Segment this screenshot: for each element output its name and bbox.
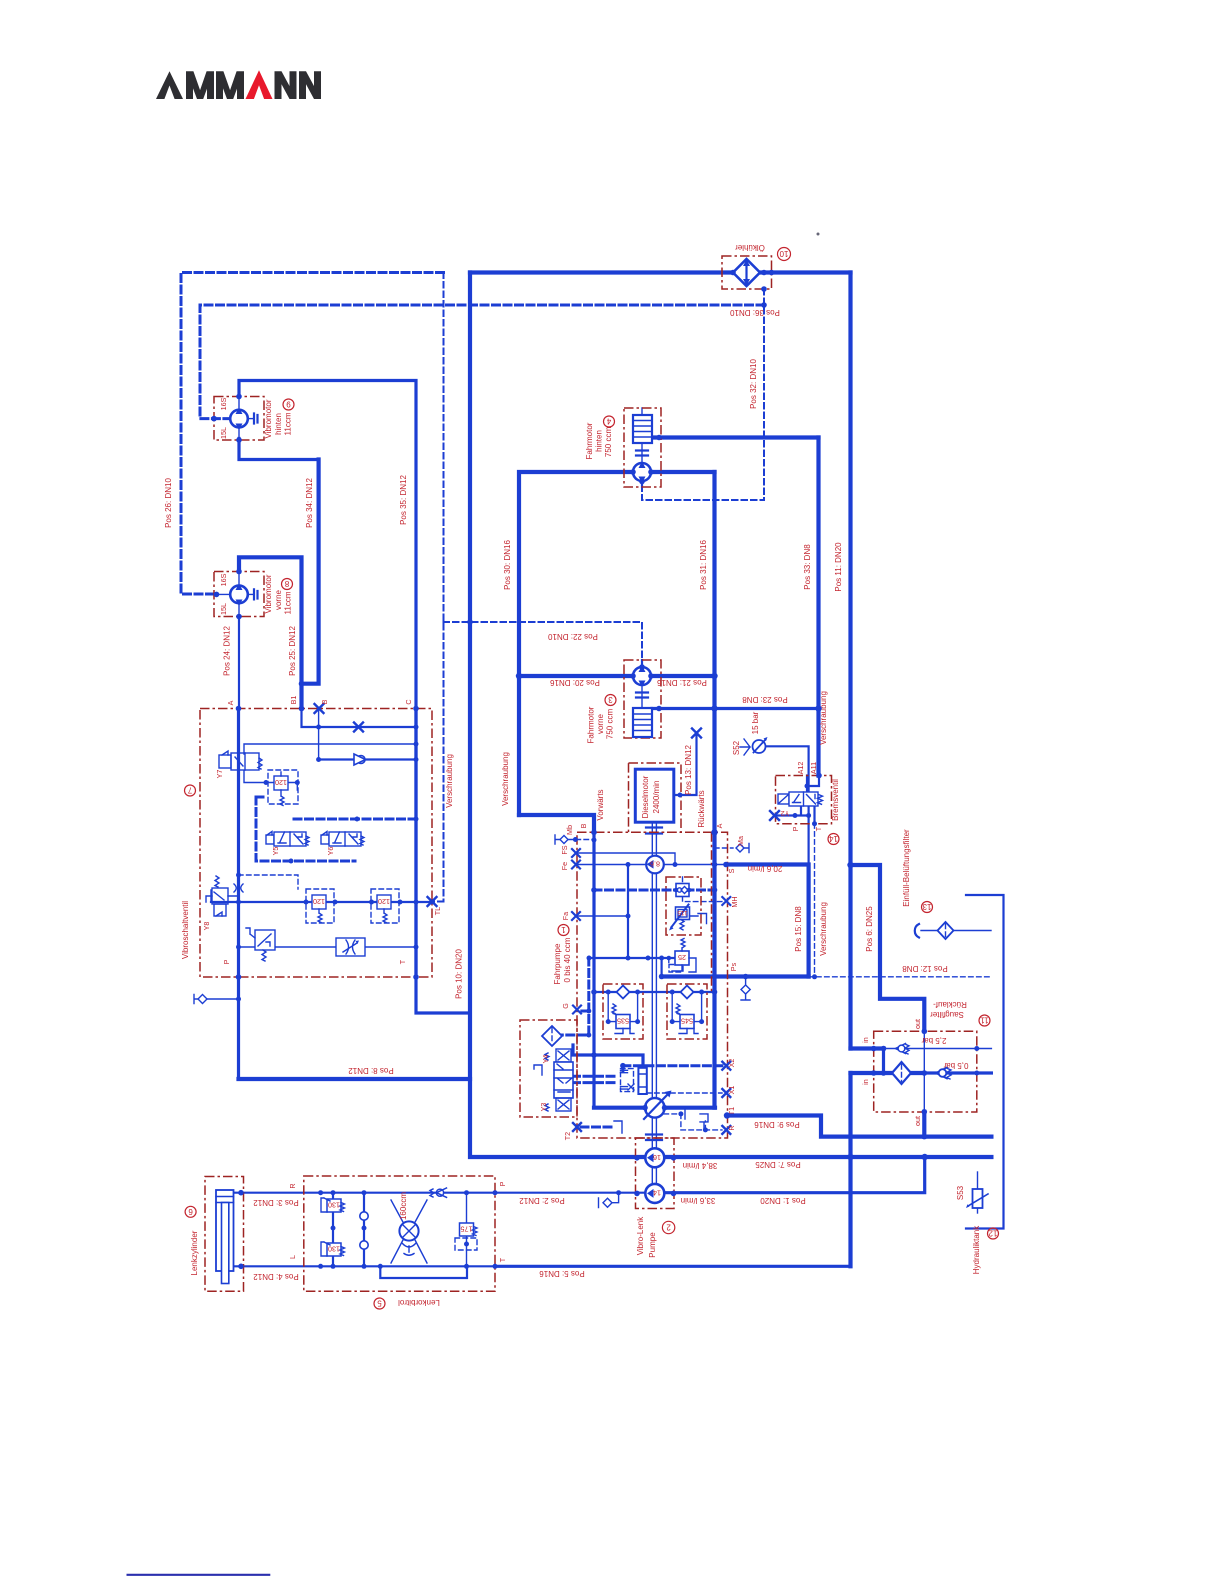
svg-text:33,6 l/min: 33,6 l/min (681, 1196, 716, 1205)
Lenkzylinder cylinder (216, 1190, 234, 1284)
svg-text:T: T (498, 1257, 507, 1262)
AMMANN logo (156, 70, 321, 99)
wire vibromotor9 side shaft (248, 418, 255, 420)
junction dots group Vibroschaltventil (236, 706, 434, 1002)
wire orbitrol internal column 130 (332, 1193, 334, 1267)
wire Pos20 DN16 (519, 674, 633, 678)
svg-text:Ps: Ps (729, 962, 738, 971)
T2 port X (573, 1123, 581, 1131)
Y5 solenoid valve (266, 832, 309, 847)
wire dashed X2 pilot (623, 1066, 722, 1071)
svg-text:B1: B1 (289, 696, 298, 705)
wire Vibroschalt check line y=759.5 (319, 758, 416, 760)
25 relief valve (672, 939, 696, 973)
wire Dieselmotor to Pos13 (674, 733, 696, 795)
wire Vorwaerts feed (519, 815, 594, 832)
svg-text:Verschraubung: Verschraubung (445, 754, 454, 808)
svg-text:Pumpe: Pumpe (648, 1232, 657, 1258)
wire coupling bars (646, 828, 662, 1141)
wire filter bypass line 2,5bar (884, 1048, 992, 1050)
logo letter N2 (299, 71, 321, 99)
wire Vibroschalt B column (318, 709, 320, 760)
box Fahrpumpe 1 (577, 832, 728, 1138)
check assembly left diamond (617, 986, 630, 999)
svg-text:4: 4 (606, 417, 611, 426)
box check valve left (603, 984, 643, 1039)
TL X port (428, 897, 437, 906)
svg-text:R: R (288, 1183, 297, 1188)
wire vibromotor vorne top loop Pos25 (239, 557, 302, 708)
svg-text:175: 175 (461, 1225, 473, 1234)
svg-text:A: A (226, 700, 235, 705)
svg-text:120: 120 (313, 897, 325, 906)
wire dashed MH (683, 897, 723, 902)
svg-text:750 ccm: 750 ccm (606, 709, 615, 740)
wire orbitrol bottom return (380, 1266, 467, 1278)
svg-text:Pos 12: DN8: Pos 12: DN8 (902, 964, 948, 973)
svg-text:38,4 l/min: 38,4 l/min (683, 1161, 718, 1170)
svg-text:Ölkühler: Ölkühler (735, 243, 765, 252)
svg-text:X2: X2 (727, 1059, 736, 1068)
flow control orifice box (336, 938, 365, 956)
svg-text:Saugfilter: Saugfilter (930, 1010, 964, 1019)
wire dashed Bremsventil T drain (814, 824, 816, 977)
svg-text:A12: A12 (796, 762, 805, 775)
svg-text:Pos 23: DN8: Pos 23: DN8 (742, 695, 788, 704)
valve X on y727 (354, 723, 363, 732)
svg-text:Verschraubung: Verschraubung (819, 902, 828, 956)
Mb port symbol (555, 835, 568, 844)
junction dots group top area (211, 270, 822, 798)
svg-text:0,5 bar: 0,5 bar (943, 1061, 968, 1070)
orifice on A line (234, 884, 243, 892)
wire boost Fa line (576, 915, 628, 917)
svg-text:16S: 16S (219, 397, 228, 410)
svg-text:Pos 32: DN10: Pos 32: DN10 (749, 359, 758, 409)
wire dashed T2 (581, 1126, 614, 1129)
svg-text:Fahrmotor: Fahrmotor (587, 706, 596, 743)
wire fahrmotor hinten coupling (636, 451, 648, 456)
svg-text:vorne: vorne (596, 713, 605, 734)
svg-text:Y8: Y8 (202, 922, 211, 931)
label group small port letters (202, 397, 922, 1262)
wire B line in Fahrpumpe (592, 832, 595, 1107)
orbitrol inlet check (430, 1188, 447, 1197)
svg-text:Pos 6: DN25: Pos 6: DN25 (865, 906, 874, 952)
svg-text:20,6 l/min: 20,6 l/min (748, 864, 783, 873)
svg-text:Vibro-Lenk: Vibro-Lenk (636, 1216, 645, 1256)
svg-text:10: 10 (779, 249, 788, 258)
svg-text:14: 14 (829, 834, 838, 843)
svg-text:11: 11 (980, 1016, 989, 1025)
wire Pos24 DN12 A-line (238, 557, 240, 708)
wire Pos9 DN16 return (727, 1116, 991, 1137)
vibromotor vorne circle (230, 584, 248, 607)
svg-text:120: 120 (275, 778, 287, 787)
svg-text:Pos 15: DN8: Pos 15: DN8 (794, 906, 803, 952)
Ps gauge port symbol (741, 977, 750, 1001)
svg-text:Einfüll-Belüftungsfilter: Einfüll-Belüftungsfilter (902, 829, 911, 907)
svg-text:Y4: Y4 (541, 1055, 550, 1064)
logo letter A2 red (246, 70, 273, 99)
svg-text:Mb: Mb (565, 825, 574, 835)
wire Lenkzylinder R line (234, 1192, 496, 1194)
svg-text:T2: T2 (563, 1132, 572, 1140)
svg-text:2400/min: 2400/min (652, 781, 661, 814)
svg-text:Pos 13: DN12: Pos 13: DN12 (684, 745, 693, 795)
X1 port X (722, 1089, 730, 1097)
fahrmotor hinten motor circle (633, 462, 651, 484)
svg-text:Pos 33: DN8: Pos 33: DN8 (803, 544, 812, 590)
svg-text:Pos 1: DN20: Pos 1: DN20 (760, 1196, 806, 1205)
wire dashed Pos26 DN10 top (181, 273, 444, 595)
wire dashed Pos32 DN10 (642, 289, 764, 500)
wire dashed Verschraubung TL column (432, 273, 444, 902)
wire dashed pilot to G and suction filter (562, 958, 589, 1035)
wire Vibroschalt C-T column (414, 709, 417, 978)
svg-text:545: 545 (681, 1017, 693, 1026)
svg-text:Ma: Ma (736, 836, 745, 846)
MH port X (722, 897, 730, 905)
svg-text:Pos 4: DN12: Pos 4: DN12 (253, 1272, 299, 1281)
swash drain bracket (677, 1108, 685, 1119)
svg-text:14: 14 (653, 1188, 661, 1197)
svg-text:Pos 2: DN12: Pos 2: DN12 (519, 1196, 565, 1205)
svg-text:3: 3 (608, 695, 613, 704)
svg-text:Pos 35: DN12: Pos 35: DN12 (399, 475, 408, 525)
svg-text:130: 130 (328, 1245, 340, 1254)
svg-text:G: G (561, 1003, 570, 1009)
svg-text:B: B (320, 699, 329, 704)
Bremsventil P port X (770, 811, 779, 820)
fahrmotor vorne motor circle (633, 666, 651, 688)
svg-text:115: 115 (677, 909, 688, 916)
svg-text:T: T (814, 826, 823, 831)
120 pilot valve 1 (274, 772, 288, 806)
wire Ps riser (660, 958, 662, 977)
wire filter out jog (851, 865, 925, 1031)
svg-text:Pos 7: DN25: Pos 7: DN25 (755, 1160, 801, 1169)
wire dashed Y5 Y6 pilot box (256, 797, 416, 861)
svg-text:Hydrauliktank: Hydrauliktank (972, 1225, 981, 1274)
svg-text:in: in (861, 1037, 870, 1043)
120 pilot valve 3 (377, 895, 391, 923)
wire tank bracket (966, 895, 1004, 1229)
wire Pos30 DN16 (519, 472, 633, 815)
box vibromotor hinten 9 (214, 397, 264, 441)
wire vibromotor hinten top loop Pos35 (239, 381, 470, 1014)
svg-text:9: 9 (286, 400, 291, 409)
svg-text:Pos 10: DN20: Pos 10: DN20 (455, 949, 464, 999)
svg-text:Dieselmotor: Dieselmotor (641, 775, 650, 818)
wire A line Rueckwaerts x=714.5 (712, 472, 716, 1108)
wire top main line to oil cooler y=272 (470, 270, 851, 274)
wire boost FS line (576, 853, 675, 865)
svg-text:Pos 22: DN10: Pos 22: DN10 (548, 632, 598, 641)
svg-text:Pos 36: DN10: Pos 36: DN10 (730, 308, 780, 317)
logo letter M1 (186, 71, 214, 99)
svg-text:Pos 3: DN12: Pos 3: DN12 (253, 1198, 299, 1207)
wire Pos8 DN12 (239, 1077, 471, 1081)
box oil cooler 10 (722, 256, 772, 289)
svg-text:Fe: Fe (560, 862, 569, 870)
wire S 20,6l/min thick (726, 865, 809, 977)
svg-text:S: S (727, 868, 736, 873)
Bremsventil valve (778, 792, 823, 806)
oil cooler diamond (733, 259, 760, 286)
wire S boost thin segments (576, 864, 726, 866)
wire vibromotor8 shaft stub (238, 563, 240, 624)
svg-text:in: in (861, 1079, 870, 1085)
svg-text:13: 13 (922, 902, 931, 911)
svg-text:11ccm: 11ccm (284, 591, 293, 614)
wire dashed Pos12 DN8 (809, 976, 991, 978)
svg-text:8.6: 8.6 (650, 860, 660, 869)
servo pilot chokes (621, 1069, 635, 1092)
label group small numbers in valves (275, 778, 693, 1254)
wire filter out right (924, 1071, 991, 1074)
svg-text:Pos 20: DN16: Pos 20: DN16 (550, 678, 600, 687)
G port X (573, 1006, 581, 1014)
wire filter out bottom (922, 1112, 926, 1137)
svg-text:Vibromotor: Vibromotor (264, 399, 273, 438)
wire dashed X1 pilot (647, 1092, 722, 1094)
svg-text:25: 25 (678, 953, 686, 962)
box Lenkzylinder 6 (205, 1177, 244, 1292)
wire Vibroschalt B1 branch y=727 (302, 709, 417, 728)
wire dashed servo pilot links (573, 1076, 619, 1082)
svg-text:Rückwärts: Rückwärts (697, 790, 706, 827)
svg-text:P: P (791, 826, 800, 831)
box Fahrmotor vorne 3 (624, 660, 661, 738)
wire dashed Mb (568, 839, 594, 841)
wire Fahrmotor hinten right port to Pos33 (652, 435, 819, 439)
label group circled numbers (185, 248, 999, 1310)
115 relief valve (669, 884, 707, 931)
check 2,5bar (896, 1044, 910, 1055)
wire drive shaft double line (652, 822, 656, 1183)
orbitrol 130 relief top (321, 1198, 345, 1212)
wire A-P line through Vibroschaltventil (237, 709, 240, 1080)
box Ruecklauf-Saugfilter 11 (874, 1031, 977, 1112)
Pos13 port X (692, 729, 701, 738)
Dieselmotor block (635, 769, 674, 822)
svg-text:2,5 bar: 2,5 bar (921, 1036, 946, 1045)
svg-text:out: out (913, 1116, 922, 1126)
box check valve right (667, 984, 707, 1039)
wire Bremsventil P to Ps (807, 816, 809, 864)
wire dashed 115 valve top link (676, 877, 683, 890)
box Y3 Y4 valve (520, 1020, 577, 1117)
box Fahrpumpe inner edge (711, 832, 713, 992)
svg-text:hinten: hinten (595, 430, 604, 452)
svg-text:535: 535 (617, 1017, 629, 1026)
wire dashed Pos36 DN10 (200, 305, 764, 419)
box Fahrmotor hinten 4 (624, 408, 661, 487)
svg-text:Pos 30: DN16: Pos 30: DN16 (503, 540, 512, 590)
box vibromotor vorne 8 (214, 572, 264, 617)
check assembly right details (672, 992, 701, 1034)
svg-text:Fa: Fa (561, 912, 570, 920)
Y7 pilot valve (219, 751, 262, 770)
junction dots group bottom (238, 1190, 497, 1269)
wire Pos5 DN16 (495, 1265, 851, 1268)
gear pump 16 circle (645, 1148, 664, 1167)
wire vibromotor8 side shaft (217, 593, 255, 595)
Y8 valve (206, 876, 228, 916)
svg-text:MH: MH (730, 896, 739, 907)
svg-text:S53: S53 (956, 1185, 965, 1200)
wire orbitrol internal column checks (363, 1193, 365, 1267)
svg-text:750 ccm: 750 ccm (604, 427, 613, 458)
svg-text:C: C (404, 699, 413, 704)
box Vibroschaltventil 7 (200, 709, 432, 978)
wire left return column x=470 (470, 273, 991, 1158)
wire orbitrol 175 column (466, 1193, 468, 1267)
svg-text:Verschraubung: Verschraubung (819, 691, 828, 745)
svg-text:P: P (498, 1181, 507, 1186)
fahrmotor vorne piston block (633, 708, 652, 737)
svg-text:vorne: vorne (274, 589, 283, 610)
svg-text:130: 130 (328, 1201, 340, 1210)
svg-text:7: 7 (187, 786, 192, 795)
svg-text:FS: FS (560, 845, 569, 854)
servo cylinder (638, 1068, 646, 1094)
svg-text:Pos 9: DN16: Pos 9: DN16 (754, 1120, 800, 1129)
orbitrol port symbol (599, 1193, 619, 1208)
wire Vibroschalt y=744 (244, 744, 416, 754)
swash plate pump circle (641, 1091, 672, 1120)
svg-text:Lenkzylinder: Lenkzylinder (190, 1230, 199, 1275)
wire Pos2 DN12 P line (495, 1192, 645, 1194)
suction filter diamond Y4 box (542, 1026, 562, 1046)
svg-text:Verschraubung: Verschraubung (501, 752, 510, 806)
wire Pos34 DN12 (302, 460, 319, 684)
svg-text:Pos 24: DN12: Pos 24: DN12 (223, 626, 232, 676)
wire dashed Pos22 DN10 (444, 622, 643, 667)
svg-text:Rücklauf-: Rücklauf- (933, 1000, 967, 1009)
svg-text:Pos 26: DN10: Pos 26: DN10 (164, 478, 173, 528)
wire Vibroschalt bottom y=947 (239, 946, 417, 948)
wire Ps line (662, 974, 809, 978)
svg-text:15 bar: 15 bar (751, 711, 760, 734)
wire dashed Y8 pilot (239, 875, 299, 889)
wire vibromotor9 shaft stub (238, 388, 240, 448)
fahrmotor hinten piston block (633, 415, 652, 443)
svg-text:1: 1 (561, 925, 566, 934)
P side port symbol (194, 995, 207, 1004)
T2 bracket glyph (614, 1114, 708, 1133)
orbitrol 130 relief bottom (321, 1242, 345, 1256)
svg-text:Vibroschaltventil: Vibroschaltventil (181, 901, 190, 959)
wire dashed 120 valve boxes (268, 770, 399, 923)
wire Vibroschalt pilot y=782.5 (244, 771, 299, 790)
box Bremsventil 14 (776, 776, 832, 824)
wire Bremsventil internals (775, 776, 820, 824)
wire dashed pilot rail y=890 (594, 889, 715, 892)
junction dots group right column (793, 773, 980, 1161)
einfuell filter symbol (915, 922, 954, 939)
X2 port X (722, 1062, 730, 1070)
label group vertical reading-up texts (164, 359, 981, 1276)
check valve B1-C (354, 754, 366, 765)
svg-text:6: 6 (188, 1207, 193, 1216)
svg-text:Fahrpumpe: Fahrpumpe (553, 943, 562, 984)
svg-text:0 bis 40 ccm: 0 bis 40 ccm (563, 937, 572, 982)
wire Lenkzylinder L line (234, 1265, 496, 1267)
gear pump 14 circle (645, 1184, 664, 1203)
check assembly left details (608, 992, 637, 1034)
wire Pos11 DN20 right column x=850 (848, 273, 852, 1267)
svg-text:Y6: Y6 (326, 847, 335, 856)
manual bypass valve (246, 928, 275, 961)
logo letter N1 (275, 71, 297, 99)
wire einfuell filter line (921, 930, 991, 932)
svg-text:Y2: Y2 (781, 809, 790, 818)
svg-text:B: B (579, 823, 588, 828)
orbitrol check balls (360, 1212, 368, 1249)
svg-text:Bremsventil: Bremsventil (831, 779, 840, 821)
S53 level switch (966, 1189, 988, 1208)
svg-text:Vibromotor: Vibromotor (264, 574, 273, 613)
box Lenkorbitrol 5 (304, 1176, 495, 1291)
S52 pressure switch (740, 737, 768, 755)
wire S53 stem (977, 1172, 979, 1213)
svg-text:Y5: Y5 (271, 847, 280, 856)
wire filter in1 (851, 1046, 884, 1050)
svg-text:16: 16 (653, 1153, 661, 1162)
svg-text:Pos 34: DN12: Pos 34: DN12 (305, 478, 314, 528)
svg-text:5: 5 (377, 1299, 382, 1308)
box 115 valve (666, 877, 701, 935)
svg-text:L: L (288, 1255, 297, 1259)
wire fahrmotor hinten shaft (641, 408, 643, 463)
wire Vibroschalt main y=902 (211, 901, 432, 903)
Ma port symbol (736, 844, 749, 853)
check assembly right diamond (681, 986, 694, 999)
wire dashed Ma (715, 847, 734, 849)
bracket glyph in Y3Y4 box (534, 1065, 542, 1075)
svg-text:2: 2 (666, 1223, 671, 1232)
svg-text:120: 120 (378, 897, 390, 906)
svg-text:Fahrmotor: Fahrmotor (585, 422, 594, 459)
wire Vibroschalt P side port (207, 998, 239, 1000)
wire filter out internal (923, 1031, 925, 1112)
svg-text:12: 12 (988, 1229, 997, 1238)
junction dots group Fahrpumpe (573, 829, 817, 1196)
wire fahrmotor vorne ports (641, 660, 643, 685)
120 pilot valve 2 (312, 895, 326, 923)
svg-text:hinten: hinten (274, 413, 283, 435)
boost pump circle 8.6 (646, 856, 664, 874)
svg-text:15L: 15L (219, 427, 228, 439)
wire pump internal y=958 (589, 957, 676, 959)
svg-text:Pos 11: DN20: Pos 11: DN20 (834, 542, 843, 592)
stray dot top right (817, 233, 820, 236)
svg-text:X1: X1 (727, 1086, 736, 1095)
orbitrol rotor (391, 1200, 427, 1263)
svg-text:Y7: Y7 (215, 770, 224, 779)
wire Vibroschalt Y8 link (211, 890, 239, 902)
wire dashed 25 valve box (669, 958, 683, 972)
wire filter in2 (851, 1071, 925, 1075)
Fe port X (572, 861, 580, 869)
B port X (315, 704, 324, 713)
wire pump internal column x=628 (627, 865, 629, 959)
wire S52 to Bremsventil P (766, 746, 809, 815)
wire fahrmotor vorne coupling (636, 693, 648, 698)
wire dashed R drain (664, 1114, 722, 1130)
